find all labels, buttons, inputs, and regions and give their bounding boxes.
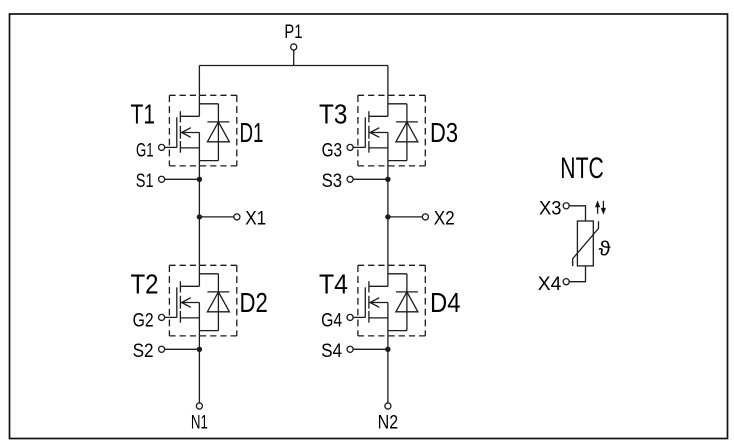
terminal N2 <box>385 403 391 409</box>
node X1 <box>197 214 240 220</box>
terminal S4 <box>347 346 391 352</box>
svg-text:NTC: NTC <box>560 152 604 185</box>
svg-text:X3: X3 <box>539 198 562 220</box>
diode D1 <box>199 104 229 161</box>
svg-text:G3: G3 <box>322 139 343 161</box>
wire X3 to NTC <box>569 206 585 221</box>
diode D4 <box>388 274 418 331</box>
terminal N1 <box>196 403 202 409</box>
diode D3 <box>388 104 418 161</box>
temperature arrows <box>595 200 606 214</box>
svg-text:S4: S4 <box>321 340 342 362</box>
svg-text:T4: T4 <box>319 268 348 299</box>
terminal P1 <box>291 44 297 50</box>
terminal S1 <box>159 176 203 182</box>
terminal X3 <box>563 203 569 209</box>
wire S row2 to N1 <box>198 336 200 403</box>
terminal G2 <box>159 314 177 320</box>
wire bus top <box>199 65 388 67</box>
svg-text:D3: D3 <box>430 117 458 148</box>
wire S row2 to N2 <box>387 336 389 403</box>
dashed box T4/D4 <box>358 265 425 336</box>
svg-text:D1: D1 <box>240 117 264 148</box>
node X2 <box>385 214 428 220</box>
svg-text:X4: X4 <box>538 273 562 295</box>
svg-text:T2: T2 <box>131 268 159 299</box>
transistor T3 (MOSFET) <box>365 95 388 166</box>
svg-text:N2: N2 <box>378 411 399 433</box>
transistor T4 (MOSFET) <box>365 265 388 336</box>
dashed box T3/D3 <box>358 95 425 166</box>
svg-text:G2: G2 <box>133 309 154 331</box>
wire S to X1 node <box>198 166 200 265</box>
svg-text:T1: T1 <box>131 98 156 129</box>
terminal G3 <box>347 144 365 150</box>
wire bus to T1 <box>198 66 200 96</box>
wire bus to T3 <box>387 66 389 96</box>
terminal S2 <box>159 346 203 352</box>
svg-text:S1: S1 <box>136 170 154 192</box>
transistor T1 (MOSFET) <box>177 95 200 166</box>
wire NTC to X4 <box>569 266 585 282</box>
wire P1 stub <box>293 50 295 65</box>
terminal X4 <box>563 279 569 285</box>
transistor T2 (MOSFET) <box>177 265 200 336</box>
svg-text:ϑ: ϑ <box>599 237 612 260</box>
terminal G1 <box>159 144 177 150</box>
svg-text:T3: T3 <box>319 98 347 129</box>
svg-text:X1: X1 <box>245 208 266 230</box>
svg-text:D4: D4 <box>430 287 461 318</box>
svg-text:P1: P1 <box>284 21 302 43</box>
thermistor R1 (NTC) <box>573 221 599 266</box>
svg-text:X2: X2 <box>434 208 455 230</box>
svg-text:S3: S3 <box>322 170 343 192</box>
terminal G4 <box>347 314 365 320</box>
svg-text:D2: D2 <box>240 287 268 318</box>
svg-text:S2: S2 <box>133 340 154 362</box>
dashed box T2/D2 <box>169 265 236 336</box>
dashed box T1/D1 <box>169 95 236 166</box>
svg-text:G4: G4 <box>321 309 342 331</box>
svg-text:N1: N1 <box>191 411 208 433</box>
svg-text:G1: G1 <box>136 139 154 161</box>
wire S to X2 node <box>387 166 389 265</box>
terminal S3 <box>347 176 391 182</box>
diode D2 <box>199 274 229 331</box>
